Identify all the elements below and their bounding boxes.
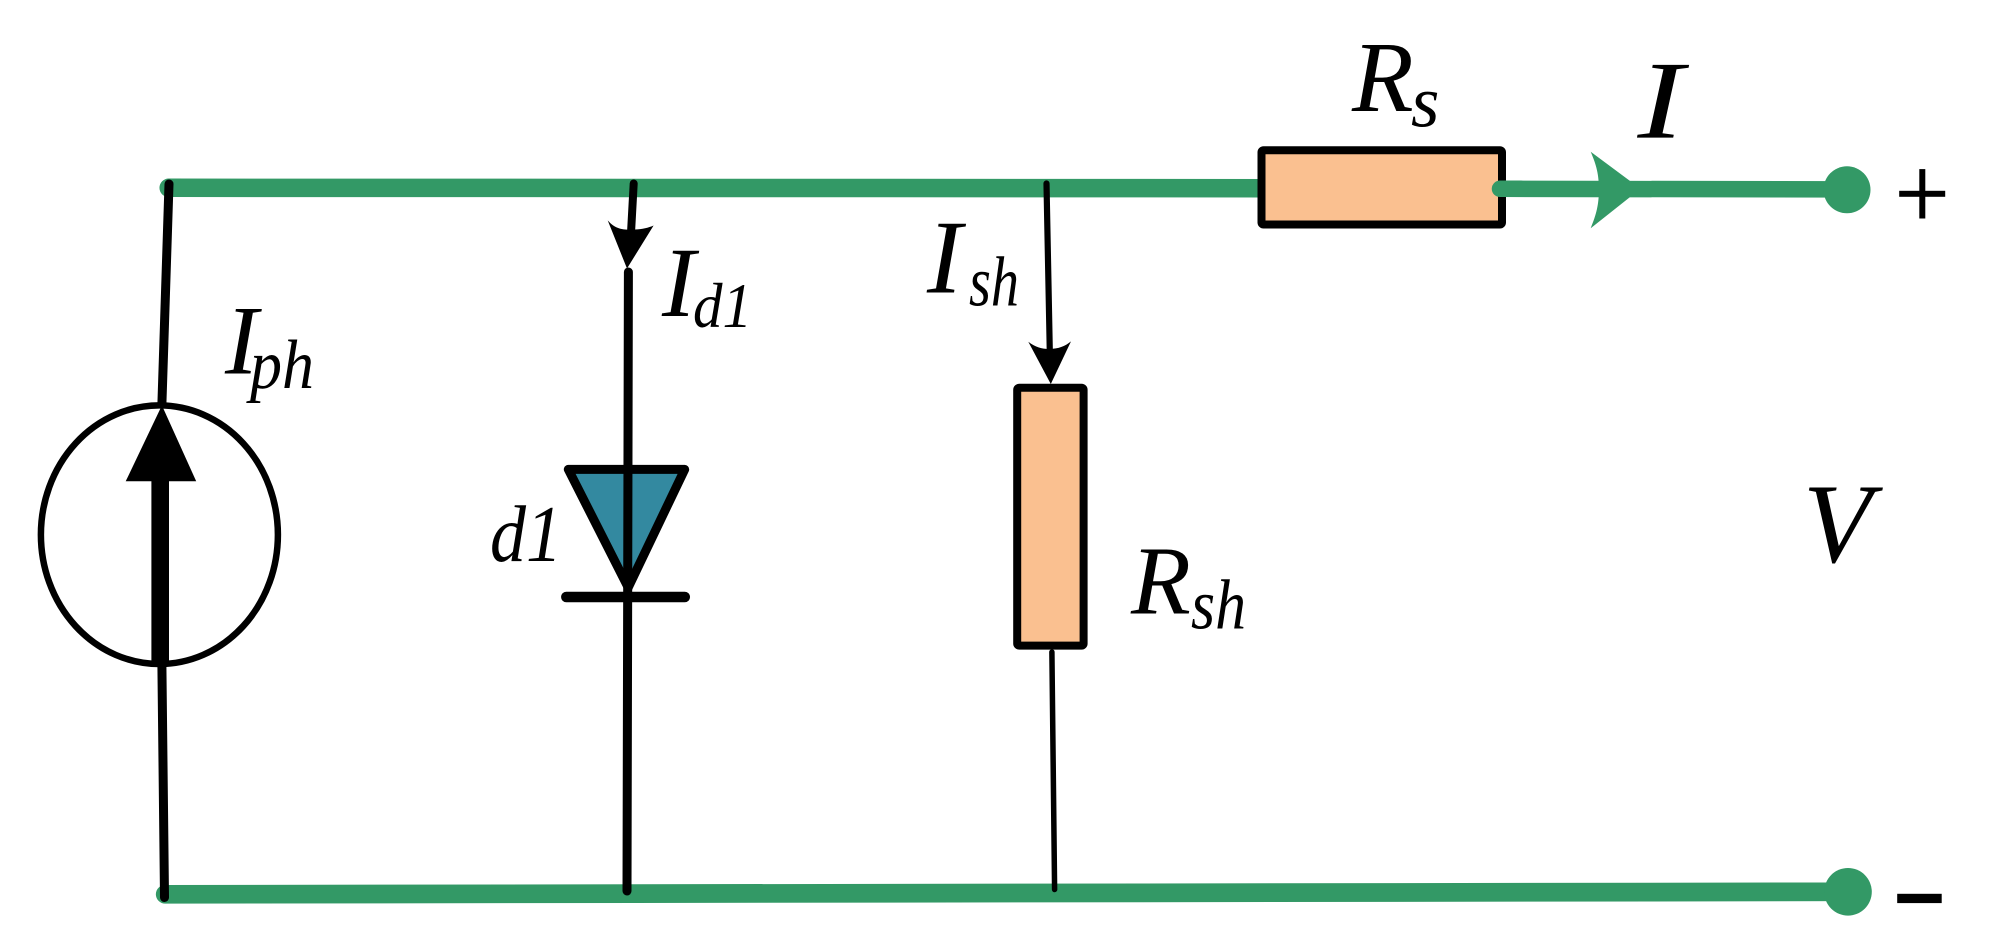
svg-text:sh: sh bbox=[1191, 566, 1246, 644]
resistor Rs body bbox=[1262, 150, 1503, 224]
minus sign bbox=[1897, 894, 1942, 903]
svg-text:d1: d1 bbox=[490, 489, 562, 579]
diode d1 triangle bbox=[568, 469, 684, 587]
wire shunt stem from rail bbox=[1047, 184, 1050, 353]
svg-text:ph: ph bbox=[245, 327, 314, 404]
svg-text:d1: d1 bbox=[693, 270, 752, 341]
wire output over Rs edge bbox=[1500, 181, 1520, 198]
current source arrow stem bbox=[151, 476, 169, 664]
svg-text:s: s bbox=[1411, 61, 1439, 142]
wire below Rsh bbox=[1052, 652, 1055, 890]
arrowhead I (stealth, right, green) bbox=[1591, 152, 1641, 228]
current source U1 circle bbox=[41, 405, 278, 664]
resistor Rsh body bbox=[1017, 388, 1083, 646]
svg-text:V: V bbox=[1803, 462, 1883, 587]
wire diode vertical bbox=[627, 272, 628, 891]
wire output top segment bbox=[1500, 181, 1847, 198]
wire left vertical (top) bbox=[162, 184, 169, 404]
svg-text:R: R bbox=[1130, 528, 1191, 636]
arrowhead Id1 (stealth, down) bbox=[608, 220, 654, 268]
wire left vertical (bottom) bbox=[162, 665, 165, 898]
arrowhead Ish (stealth, down) bbox=[1028, 341, 1071, 384]
wire bottom rail bbox=[165, 892, 1848, 895]
diode d1 cathode bar bbox=[566, 592, 685, 603]
svg-text:R: R bbox=[1351, 21, 1414, 133]
wire top rail bbox=[169, 179, 1270, 198]
wire diode stem from rail bbox=[631, 184, 634, 234]
svg-text:I: I bbox=[1636, 40, 1689, 163]
terminal dot - bbox=[1824, 868, 1872, 916]
plus sign bbox=[1899, 191, 1945, 197]
current source arrowhead bbox=[126, 405, 197, 481]
svg-text:sh: sh bbox=[969, 244, 1019, 322]
svg-text:I: I bbox=[926, 199, 967, 316]
terminal dot + bbox=[1824, 166, 1871, 213]
